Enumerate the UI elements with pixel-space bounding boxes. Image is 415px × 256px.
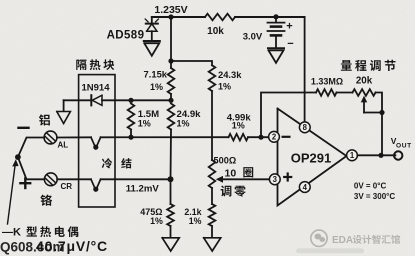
label 3V = 300C [354,192,395,201]
wire 1.33M to 20k pot [337,92,353,94]
label battery minus [287,38,293,50]
svg-text:1.235V: 1.235V [154,4,187,16]
op-amp pin 8 (V+) [299,122,310,133]
ground below battery [268,48,284,63]
battery tap junction dot on rail [273,14,278,19]
wire top rail left (1.235V node to 10k) [152,16,205,18]
terminal AL connection circle (hatched) [44,131,57,144]
svg-text:24.3k: 24.3k [218,69,242,80]
svg-text:CR: CR [61,182,73,191]
wire 1N914 cathode to ground [63,100,65,111]
node junction dot (branch to 24.3k) [168,58,173,63]
pot 20k wiper arrow [361,96,367,113]
svg-text:—K: —K [2,227,21,239]
label 10 turns (Chinese) [225,167,254,179]
svg-text:1N914: 1N914 [82,83,111,94]
label 1.33M [311,77,343,87]
svg-text:10k: 10k [207,26,224,37]
svg-text:0V = 0°C: 0V = 0°C [354,182,387,191]
arrow to thermocouple junction [8,159,19,224]
resistor 1.33M (body) [316,89,337,96]
svg-text:−: − [287,38,293,50]
node dot 7.15k bottom / 24.9k top [168,98,173,103]
wire cold junction loop to 475 ohm node [101,178,171,180]
label 1.5M tolerance 1% [138,119,151,129]
node 1.235V junction dot [168,14,173,19]
wire top rail right (10k to battery/V+ corner) [235,16,305,18]
svg-text:1.33MΩ: 1.33MΩ [311,77,343,87]
label 40.7uV per C with Q608.com watermark [0,238,108,255]
label 0V = 0C [354,182,387,191]
battery 3.0V [268,17,285,48]
wire alumel lead (junction to AL terminal) [18,138,44,158]
label VOUT [391,136,412,150]
node dot inverting input / feedback [258,135,263,140]
wire 7.15k bottom to node [170,94,172,100]
label 3.0V [243,32,263,43]
label 1.5M [138,109,159,120]
resistor 475 ohm (body) [167,204,174,226]
node dot 1.5M top / 1N914 [128,98,133,103]
wire AL terminal to cold junction loop [57,136,91,138]
label plus at pin 3 [284,174,291,181]
label 10k [207,26,224,37]
wire 2.1k to ground [211,226,213,237]
label 475 ohm [140,207,162,217]
resistor 24.3k (body) [209,65,216,91]
wire output [358,154,396,156]
node dot 20k wiper junction [379,110,384,115]
wire 4.99k to inverting input node [248,136,268,138]
cold junction upper loop [91,137,101,149]
wire node to 475 ohm [170,179,172,204]
terminal CR connection circle (hatched) [44,173,57,186]
potentiometer 20k body [353,89,376,96]
label 1.235V [154,4,187,16]
wire branch to 24.3k top [171,61,212,65]
label 24.3k tolerance 1% [218,82,231,92]
op-amp pin 3 (non-inverting input) [269,174,280,185]
label CR [61,182,73,191]
wire cold junction loop to 4.99k [101,136,229,138]
label 7.15k tolerance 1% [150,82,163,92]
label minus polarity [19,127,29,129]
svg-text:AD589: AD589 [107,30,145,42]
svg-text:OUT: OUT [396,143,412,150]
label 11.2mV [126,184,160,195]
label 2.1k [184,207,201,217]
wire chromel lead (junction to CR terminal) [18,157,44,179]
svg-text:3.0V: 3.0V [243,32,263,43]
diode AD589 (1.235V reference) [145,17,158,40]
label minus at pin 2 [283,136,290,138]
op-amp pin 2 (inverting input) [269,131,280,142]
svg-text:4: 4 [303,183,308,192]
svg-text:1%: 1% [189,216,202,226]
label 24.9k tolerance 1% [177,119,190,129]
label 4.99k [227,113,252,124]
cold junction lower loop [91,179,101,191]
wire feedback riser (pin2 node up) [261,93,316,138]
svg-text:OP291: OP291 [291,151,331,166]
label 2.1k tolerance 1% [189,216,202,226]
resistor 7.15k (body) [168,68,175,94]
label isothermal block (Chinese) [76,59,114,70]
node dot cold junction compensation (11.2mV) [168,176,174,182]
potentiometer 500 ohm body [209,160,216,188]
wire 475 ohm to ground [170,226,172,237]
ground below AD589 [144,41,160,56]
svg-text:2: 2 [272,133,277,142]
wire 1.5M bottom to AL wire [130,130,132,138]
label AD589 [107,30,145,42]
label 1N914 [82,83,111,94]
label AL [58,141,69,150]
svg-text:10: 10 [225,168,237,180]
svg-text:1%: 1% [177,119,190,129]
wire 20k right end down [376,93,383,113]
label K-type thermocouple (Chinese) [2,226,78,238]
watermark EDA logo and text [296,230,400,253]
label chromel (Chinese) [40,194,52,205]
wire pin 3 to pot wiper [222,178,270,180]
svg-text:40.7μV/°C: 40.7μV/°C [36,238,108,254]
isothermal block box (hermetic block) [79,75,115,207]
wire feedback down to output node [381,113,383,156]
resistor 10k (body) [205,14,235,21]
svg-text:7.15k: 7.15k [144,69,168,80]
ground left of isothermal block [57,112,71,124]
ground below 475 ohm [162,238,179,251]
label 20k [356,76,373,87]
pot 500 wiper arrowhead [216,176,223,183]
wire 24.3k bottom down to 500ohm pot (crosses feedback wire) [211,91,213,160]
label zero adjust (Chinese) [221,185,246,196]
svg-text:1%: 1% [218,82,231,92]
op-amp OP291 triangle [278,109,347,206]
wire pot bottom to 2.1k [211,188,213,204]
wire 24.9k bottom down to cold-junction node (crosses AL wire) [170,130,173,180]
label span adjust (Chinese) [341,60,396,71]
resistor 24.9k (body) [168,104,175,130]
node dot output junction [378,153,383,158]
node thermocouple hot junction dot [15,154,21,160]
label 500 ohm [214,156,237,166]
label alumel (Chinese) [39,114,50,125]
node dot 1.5M bottom on AL wire [128,135,133,140]
op-amp pin 4 (V-) [299,182,310,193]
resistor 4.99k (body) [229,134,249,141]
svg-text:1%: 1% [232,121,245,131]
label 24.3k [218,69,242,80]
terminal VOUT circle [394,151,402,159]
svg-text:20k: 20k [356,76,373,87]
label 4.99k tolerance 1% [232,121,245,131]
svg-text:EDA: EDA [332,235,353,246]
label 24.9k [177,109,202,120]
op-amp pin 1 (output) [347,150,358,161]
label OP291 [291,151,331,166]
svg-text:500Ω: 500Ω [214,156,237,166]
svg-text:1%: 1% [150,216,163,226]
label 7.15k [144,69,168,80]
svg-text:AL: AL [58,141,69,150]
svg-text:3: 3 [273,175,278,184]
label battery plus [286,21,292,33]
diode 1N914 [64,95,102,105]
resistor 2.1k (body) [209,204,216,226]
svg-text:1%: 1% [150,82,163,92]
wire V+ riser (rail corner down to pin 8) [304,17,306,122]
label plus polarity [20,178,30,188]
svg-text:1%: 1% [138,119,151,129]
svg-text:1: 1 [350,151,355,160]
svg-text:3V = 300°C: 3V = 300°C [354,192,395,201]
wire node row (1N914 to 7.15k/24.9k junction) [102,99,171,101]
ground below 2.1k [204,238,221,251]
svg-text:+: + [286,21,292,33]
label 475 ohm tolerance 1% [150,216,163,226]
wire CR terminal to cold junction loop [57,178,91,180]
wire 1.235V node down to 7.15k [170,17,172,68]
svg-text:11.2mV: 11.2mV [126,184,160,195]
resistor 1.5M (body) [128,104,135,130]
wire wiper to junction [364,112,382,114]
svg-text:8: 8 [303,123,308,132]
label cold junction (Chinese) [102,158,132,168]
